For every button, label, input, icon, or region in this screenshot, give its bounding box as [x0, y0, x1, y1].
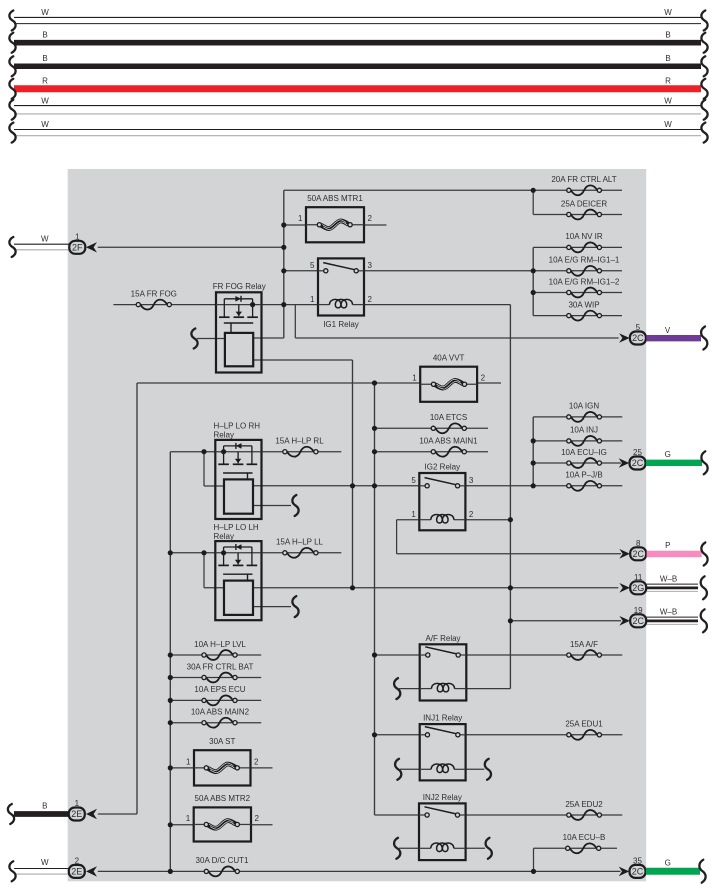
connector 2E pin 2 [69, 857, 85, 878]
fuse 10A EPS ECU [194, 685, 245, 705]
wire W sixth right break [701, 123, 707, 143]
wire 10A ABS MAIN1 row [375, 451, 489, 453]
junction (374.5,734.8) [372, 732, 377, 737]
junction (533.5,871.4) [531, 869, 536, 874]
wire RH coil row to IG2 pin5 [253, 485, 419, 487]
svg-text:W–B: W–B [660, 574, 677, 583]
wire VVT feed row [137, 382, 420, 384]
wire 10A ABS MAIN2 row [170, 722, 261, 724]
break H-LP RH output [292, 495, 298, 516]
wire W fifth right break [701, 100, 707, 120]
svg-text:15A FR FOG: 15A FR FOG [131, 289, 177, 298]
wire B right break [701, 33, 707, 53]
fuse 10A E/G RM-IG1-1 [549, 256, 620, 276]
junction (533.2,270.8) [531, 268, 536, 273]
fuse 15A H-LP LL [276, 538, 324, 558]
svg-text:A/F Relay: A/F Relay [425, 634, 460, 643]
wire fuse bank vertical left [169, 452, 171, 872]
svg-text:2: 2 [481, 374, 486, 383]
junction (374.5,383) [372, 380, 377, 385]
svg-text:10A E/G RM–IG1–1: 10A E/G RM–IG1–1 [549, 256, 620, 265]
svg-text:IG2 Relay: IG2 Relay [425, 463, 461, 472]
wire 15A H-LP RL row [262, 451, 342, 453]
break V wire [701, 327, 707, 350]
junction (352.5,485.8) [350, 483, 355, 488]
svg-text:11: 11 [634, 573, 643, 582]
svg-text:W: W [41, 235, 49, 244]
fuse 15A A/F [567, 640, 602, 660]
svg-text:Relay: Relay [214, 532, 234, 541]
wire deicer branch vertical [532, 190, 534, 214]
wire W sixth left break [9, 123, 15, 143]
svg-text:10A EPS ECU: 10A EPS ECU [194, 685, 245, 694]
junction (170.3,677.5) [168, 675, 173, 680]
wire G (green) from 2C pin35 [646, 858, 700, 871]
svg-text:3: 3 [469, 476, 474, 485]
fusible link 50A ABS MTR2 [186, 794, 260, 841]
svg-text:W: W [41, 96, 49, 105]
wire R right break [701, 79, 707, 99]
wire 15A H-LP LL row [262, 552, 342, 554]
wire H-LP LH input [170, 552, 215, 554]
fuse 25A DEICER [561, 199, 607, 219]
wire 2E pin1 feed [98, 813, 137, 815]
svg-text:W: W [41, 8, 49, 17]
svg-text:30A ST: 30A ST [209, 737, 235, 746]
fuse 30A D/C CUT1 [196, 856, 249, 876]
svg-text:10A IGN: 10A IGN [569, 402, 599, 411]
wire VVT pin2 stub [477, 382, 501, 384]
wire 2F pin1 feed [98, 246, 284, 248]
wire INJ2 switch input [375, 814, 420, 816]
svg-text:1: 1 [75, 232, 80, 241]
svg-text:B: B [42, 801, 47, 810]
svg-text:10A NV IR: 10A NV IR [565, 232, 603, 241]
fuse 25A EDU1 [565, 720, 603, 740]
junction (533.2,485.8) [531, 483, 536, 488]
relay FR FOG (semiconductor) [213, 282, 266, 372]
wire 15A FR FOG row [113, 304, 216, 306]
svg-text:INJ1 Relay: INJ1 Relay [423, 714, 462, 723]
break INJ2 coil right [486, 838, 492, 859]
wire FR FOG lower out [253, 359, 352, 361]
fuse 20A FR CTRL ALT [551, 175, 616, 195]
wire bus vertical [283, 190, 285, 338]
svg-text:V: V [665, 326, 671, 335]
fusible link 40A VVT [412, 354, 485, 402]
wire IG2 pin2 out [465, 519, 510, 521]
svg-text:2E: 2E [71, 809, 82, 819]
break P wire [701, 543, 707, 566]
break W 2E wire [9, 861, 15, 881]
relay IG2 [411, 463, 474, 531]
svg-text:G: G [665, 858, 671, 867]
wire B second left break [9, 56, 15, 76]
svg-text:15A H–LP LL: 15A H–LP LL [276, 538, 324, 547]
wire H-LP RH input [170, 451, 215, 453]
break G wire [701, 451, 707, 474]
wire RH coil branch [204, 485, 224, 487]
svg-text:3: 3 [368, 261, 373, 270]
wire B (top harness, black) [14, 31, 701, 43]
wire INJ1 coil left [400, 768, 420, 770]
svg-text:1: 1 [298, 214, 303, 223]
wire top feed row [284, 189, 622, 191]
relay INJ1 [420, 714, 466, 781]
fuse 10A ABS MAIN2 [191, 708, 250, 728]
svg-text:20A FR CTRL ALT: 20A FR CTRL ALT [551, 175, 616, 184]
svg-text:10A H–LP LVL: 10A H–LP LVL [194, 640, 246, 649]
junction (533.2,463) [531, 460, 536, 465]
svg-text:1: 1 [411, 510, 416, 519]
break G wire 2C35 [699, 860, 705, 883]
fuse 10A E/G RM-IG1-2 [549, 277, 620, 297]
svg-text:1: 1 [310, 295, 315, 304]
wire W to connector 2E pin2 [14, 858, 69, 874]
junction (170.3,655) [168, 652, 173, 657]
wire B left break [9, 33, 15, 53]
wire 10A IGN row [533, 416, 622, 418]
arrow into 2C pin25 [619, 458, 630, 468]
arrow into 2C pin5 [619, 333, 630, 343]
wire W-B from 2C pin19 [647, 607, 698, 624]
wire A/F switch input [375, 654, 420, 656]
wire headlight vertical [352, 360, 354, 588]
junction (204,552.8) [201, 550, 206, 555]
junction (533.2,440.9) [531, 438, 536, 443]
wire IG1-IG2 vertical [509, 305, 511, 689]
junction (170.3,700.4) [168, 698, 173, 703]
wire W (sixth, white) [14, 120, 701, 136]
relay H-LP LO RH (semiconductor) [215, 440, 261, 519]
wire 2C pin5 row [295, 337, 618, 339]
svg-text:30A FR CTRL BAT: 30A FR CTRL BAT [187, 662, 254, 671]
svg-text:10A INJ: 10A INJ [570, 426, 598, 435]
wire 2C pin8 row [397, 553, 621, 555]
svg-text:19: 19 [634, 606, 643, 615]
fuse 10A ECU-B [563, 833, 606, 853]
wire FR FOG out to IG1 pin1 [262, 304, 319, 306]
svg-text:2C: 2C [632, 549, 644, 559]
wire B second right break [701, 56, 707, 76]
wire 15A A/F row [466, 654, 622, 656]
relay IG1 [310, 258, 372, 329]
svg-text:H–LP LO RH: H–LP LO RH [214, 422, 261, 431]
svg-text:W: W [664, 8, 672, 17]
junction (374.5,428.3) [372, 426, 377, 431]
svg-text:2: 2 [255, 814, 260, 823]
fusible link 50A ABS MTR1 [298, 194, 372, 242]
svg-text:30A D/C CUT1: 30A D/C CUT1 [196, 856, 249, 865]
wire 10A ECU-B branch vertical [533, 848, 535, 871]
wire W fifth left break [9, 100, 15, 120]
svg-text:R: R [42, 76, 48, 85]
wire 10A ECU-IG row [533, 462, 621, 464]
svg-text:2C: 2C [632, 333, 644, 343]
svg-text:25A DEICER: 25A DEICER [561, 199, 607, 208]
svg-text:2: 2 [368, 295, 373, 304]
relay INJ2 [419, 793, 466, 860]
connector 2F pin 1 [69, 232, 85, 253]
wire IGN bank vertical [532, 417, 534, 486]
wire W-B from 2G pin11 [647, 574, 698, 591]
wire 10A EPS ECU row [170, 699, 261, 701]
fuse 10A P-J/B [565, 471, 602, 491]
wire bottom feed row [98, 870, 621, 872]
svg-text:2G: 2G [632, 583, 644, 593]
svg-text:B: B [42, 31, 47, 40]
wire IG2 pin3 to 10A P-J/B [465, 485, 622, 487]
svg-text:IG1 Relay: IG1 Relay [323, 320, 359, 329]
wire 10A NV IR row [533, 246, 622, 248]
svg-text:25: 25 [633, 448, 642, 457]
svg-text:B: B [42, 54, 47, 63]
connector 2C pin 19 [630, 606, 646, 627]
svg-text:1: 1 [412, 374, 417, 383]
break A/F coil feed [394, 678, 400, 699]
connector 2C pin 35 [630, 857, 646, 878]
wire B to connector 2E pin1 [14, 801, 69, 814]
wire W (top harness, white) [14, 8, 701, 23]
wire V (violet) from 2C pin5 [646, 326, 701, 338]
wire LH coil branch [204, 587, 224, 589]
wire bus to FR FOG inner [253, 337, 284, 339]
wire FR FOG coil input [197, 338, 225, 340]
svg-text:W–B: W–B [660, 607, 677, 616]
svg-text:G: G [665, 450, 671, 459]
svg-text:25A EDU1: 25A EDU1 [565, 720, 603, 729]
svg-text:35: 35 [633, 857, 642, 866]
svg-text:15A A/F: 15A A/F [570, 640, 598, 649]
wire RH lower out [253, 505, 291, 507]
svg-text:INJ2 Relay: INJ2 Relay [423, 793, 462, 802]
svg-text:R: R [665, 76, 671, 85]
svg-text:1: 1 [75, 799, 80, 808]
svg-text:50A ABS MTR1: 50A ABS MTR1 [307, 194, 363, 203]
wire 30A FR CTRL BAT row [170, 677, 261, 679]
wire IG1 pin2 out [364, 304, 510, 306]
wire 50A ABS MTR2 pin2 [251, 824, 273, 826]
arrow into 2C pin35 [619, 867, 630, 877]
wire 10A H-LP LVL row [170, 654, 261, 656]
wire battery vertical left [136, 383, 138, 814]
relay A/F [420, 634, 467, 701]
fuse 25A EDU2 [565, 800, 603, 820]
wire RH coil branch vertical [203, 452, 205, 486]
wire W right break [701, 11, 707, 31]
arrow into 2C pin19 [619, 616, 630, 626]
svg-text:10A ECU–IG: 10A ECU–IG [561, 448, 607, 457]
fuse 30A WIP [567, 300, 602, 320]
svg-text:40A VVT: 40A VVT [433, 354, 465, 363]
break W-B wire 2G11 [701, 576, 707, 599]
fusible link 30A ST [186, 737, 259, 786]
svg-text:5: 5 [636, 323, 641, 332]
wire LH coil row to 2G pin11 [253, 587, 618, 589]
fuse 15A H-LP RL [275, 437, 324, 457]
wire 30A ST pin1 [170, 767, 194, 769]
wire INJ1 coil right [466, 768, 485, 770]
svg-text:2C: 2C [632, 867, 644, 877]
wire 50A ABS MTR1 pin1 [284, 224, 306, 226]
wire NV IR bank vertical [532, 247, 534, 315]
svg-text:10A ABS MAIN1: 10A ABS MAIN1 [419, 437, 478, 446]
junction (283.8,304.6) [281, 302, 286, 307]
svg-text:2F: 2F [72, 243, 83, 253]
svg-text:2: 2 [368, 214, 373, 223]
break B 2E wire [8, 804, 14, 824]
break H-LP LH output [292, 596, 298, 617]
connector 2E pin 1 [69, 799, 85, 820]
relay block panel [68, 169, 647, 881]
break INJ1 coil right [485, 759, 491, 780]
svg-text:15A H–LP RL: 15A H–LP RL [275, 437, 324, 446]
wire 25A EDU2 row [466, 814, 623, 816]
wire 50A ABS MTR1 pin2 [364, 224, 386, 226]
wire W (fifth, white) [14, 96, 701, 114]
junction (170.3,824.8) [168, 822, 173, 827]
wire IG1 pin5 feed [284, 270, 318, 272]
svg-text:1: 1 [186, 814, 191, 823]
svg-text:2: 2 [469, 510, 474, 519]
junction (374.5,485.8) [372, 483, 377, 488]
svg-text:5: 5 [411, 476, 416, 485]
svg-text:1: 1 [186, 757, 191, 766]
svg-text:25A EDU2: 25A EDU2 [565, 800, 603, 809]
wire IG2 pin1 out [397, 519, 420, 521]
fuse 15A FR FOG [131, 289, 177, 309]
wire INJ2 coil right [466, 847, 485, 849]
wire IG2 pin1 vertical [396, 520, 398, 554]
fuse 10A ECU-IG [561, 448, 607, 468]
connector 2C pin 25 [630, 448, 646, 469]
wire INJ2 coil left [399, 847, 419, 849]
junction (170.3,552.8) [168, 550, 173, 555]
junction (374.5,451.7) [372, 449, 377, 454]
wire main vertical bus [374, 383, 376, 815]
wire 2C pin19 row [510, 620, 621, 622]
svg-text:H–LP LO LH: H–LP LO LH [214, 523, 259, 532]
wire 2C pin5 branch [294, 305, 296, 338]
wire G (green) from 2C pin25 [646, 450, 702, 463]
break W 2F wire [9, 237, 15, 257]
wire 10A ECU-B row [534, 847, 618, 849]
svg-text:10A P–J/B: 10A P–J/B [565, 471, 602, 480]
arrow into 2E pin1 [86, 809, 97, 819]
wire R (red) [14, 76, 701, 88]
svg-text:2: 2 [254, 757, 259, 766]
svg-text:W: W [664, 120, 672, 129]
svg-text:B: B [665, 31, 670, 40]
break FR FOG coil feed [191, 329, 197, 349]
junction (170.3,871.4) [168, 869, 173, 874]
svg-text:P: P [665, 541, 670, 550]
wire INJ1 switch input [375, 734, 420, 736]
wire 30A ST pin2 [251, 767, 273, 769]
wire B (second, black) [14, 54, 701, 66]
junction (283.8,247.3) [281, 245, 286, 250]
svg-text:8: 8 [636, 539, 641, 548]
svg-text:5: 5 [310, 261, 315, 270]
wire 50A ABS MTR2 pin1 [170, 824, 193, 826]
arrow into 2G pin11 [619, 583, 630, 593]
break INJ1 coil left [395, 759, 401, 780]
svg-text:2E: 2E [71, 867, 82, 877]
svg-text:2C: 2C [632, 616, 644, 626]
wire LH coil branch vertical [203, 553, 205, 588]
junction (170.3,722.7) [168, 720, 173, 725]
fuse 10A ETCS [430, 413, 467, 433]
fuse 10A IGN [567, 402, 602, 422]
svg-text:30A WIP: 30A WIP [568, 300, 599, 309]
wire 10A ETCS row [375, 427, 489, 429]
connector 2C pin 5 [630, 323, 646, 344]
junction (283.8,270.8) [281, 268, 286, 273]
junction (533.2,292.5) [531, 290, 536, 295]
svg-text:10A E/G RM–IG1–2: 10A E/G RM–IG1–2 [549, 277, 620, 286]
fuse 10A H-LP LVL [194, 640, 246, 660]
junction (510.4,620.8) [508, 618, 513, 623]
wire A/F coil left [399, 688, 420, 690]
junction (374.5,655) [372, 652, 377, 657]
break W-B wire 2C19 [701, 609, 707, 632]
junction (170.3,767.9) [168, 765, 173, 770]
wire A/F coil right [466, 688, 510, 690]
wire P (pink) from 2C pin8 [647, 541, 702, 554]
wire 10A E/G RM-IG1-2 row [533, 292, 622, 294]
arrow into 2C pin8 [619, 549, 630, 559]
junction (283.8,225) [281, 222, 286, 227]
fuse 10A NV IR [565, 232, 603, 252]
junction (204,451.7) [201, 449, 206, 454]
wire R left break [9, 79, 15, 99]
svg-text:W: W [41, 858, 49, 867]
svg-text:W: W [41, 120, 49, 129]
arrow into 2F [86, 242, 97, 252]
junction (510.4,587.8) [508, 585, 513, 590]
fuse 10A ABS MAIN1 [419, 437, 478, 457]
fuse 30A FR CTRL BAT [187, 662, 254, 682]
wire 25A EDU1 row [466, 734, 623, 736]
svg-text:W: W [664, 96, 672, 105]
label H-LP LO LH Relay [214, 523, 259, 541]
wire IG1 pin3 to fuse bank [364, 270, 622, 272]
break INJ2 coil left [394, 838, 400, 859]
connector 2G pin 11 [630, 573, 646, 594]
wire deicer row [533, 214, 622, 216]
svg-text:10A ECU–B: 10A ECU–B [563, 833, 606, 842]
svg-text:B: B [665, 54, 670, 63]
wire 10A INJ row [533, 440, 622, 442]
junction (533.2,190.3) [531, 188, 536, 193]
junction (510.4,519.7) [508, 517, 513, 522]
svg-text:FR FOG Relay: FR FOG Relay [213, 282, 266, 291]
arrow into 2E pin2 [86, 866, 97, 876]
label H-LP LO RH Relay [214, 422, 261, 440]
svg-text:50A ABS MTR2: 50A ABS MTR2 [195, 794, 251, 803]
wire 30A WIP row [533, 315, 622, 317]
wire W left break [9, 11, 15, 31]
svg-text:10A ETCS: 10A ETCS [430, 413, 467, 422]
svg-text:2C: 2C [632, 458, 644, 468]
relay H-LP LO LH (semiconductor) [215, 541, 261, 620]
wire W to connector 2F [14, 235, 69, 250]
fuse 10A INJ [567, 426, 602, 446]
svg-text:2: 2 [75, 857, 80, 866]
wire LH lower out [253, 606, 291, 608]
svg-text:Relay: Relay [214, 431, 234, 440]
connector 2C pin 8 [630, 539, 646, 560]
